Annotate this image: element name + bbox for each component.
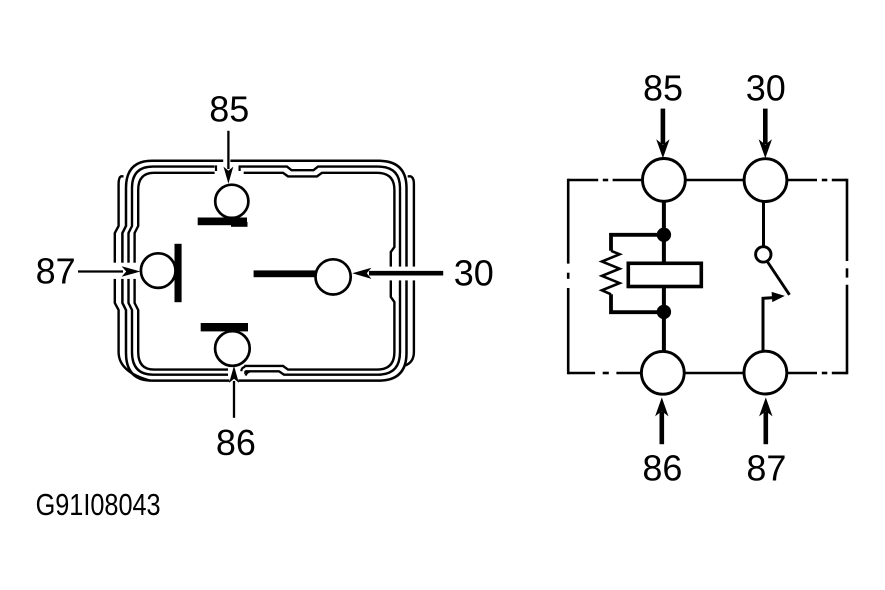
arrow to pin 87 [78, 266, 140, 277]
svg-text:85: 85 [209, 89, 249, 130]
svg-text:85: 85 [643, 68, 683, 109]
dash-dot enclosure top left [568, 179, 642, 182]
label 30 (case) [454, 252, 494, 293]
switch pivot circle [756, 247, 771, 262]
label 87 (case) [36, 251, 76, 292]
svg-text:87: 87 [746, 447, 786, 488]
switch moving contact wire [762, 292, 785, 352]
terminal 85 circle [643, 159, 686, 202]
svg-text:87: 87 [36, 251, 76, 292]
notch gap top center [215, 157, 244, 177]
relay case middle outline [129, 167, 401, 375]
arrow to pin 30 [352, 268, 443, 279]
svg-text:G91I08043: G91I08043 [36, 489, 161, 522]
notch gap bottom center [228, 363, 244, 384]
relay case left bump line [115, 176, 150, 380]
arrow to terminal 30 [759, 109, 772, 159]
junction node upper [657, 228, 671, 242]
figure id G91I08043 [36, 489, 161, 522]
dash-dot enclosure top right [787, 179, 847, 182]
relay case right bump line [405, 176, 414, 365]
label 86 (schematic) [642, 447, 682, 488]
terminal 86 circle [641, 351, 684, 394]
switch blade [768, 262, 790, 295]
svg-text:30: 30 [454, 252, 494, 293]
arrow to pin 85 [224, 131, 234, 184]
junction node lower [657, 305, 671, 319]
terminal 87 circle [744, 351, 787, 394]
svg-text:86: 86 [642, 447, 682, 488]
pin 87 terminal [141, 244, 182, 302]
wire resistor branch [611, 235, 664, 312]
arrow to pin 86 [229, 366, 239, 418]
label 85 (case) [209, 89, 249, 130]
wire from terminal 30 [762, 202, 765, 247]
relay case outer outline [122, 161, 406, 381]
arrow to terminal 87 [759, 397, 772, 444]
terminal 30 circle [744, 159, 787, 202]
svg-text:30: 30 [746, 68, 786, 109]
dash-dot enclosure top middle [685, 179, 744, 182]
notch gap left side [110, 263, 141, 279]
relay coil [628, 263, 701, 286]
wire coil branch vertical [662, 180, 666, 373]
notch hook marks top [216, 165, 240, 171]
arrow to terminal 86 [655, 397, 668, 444]
pin 85 terminal [198, 185, 249, 227]
pin 86 terminal [201, 323, 250, 366]
label 86 (case) [216, 422, 256, 463]
dash-dot enclosure left edge [567, 179, 570, 375]
dash-dot enclosure bottom middle [684, 372, 744, 375]
notch hook marks bottom [241, 367, 249, 376]
arrow to terminal 85 [656, 109, 669, 159]
resistor zigzag [602, 251, 620, 294]
label 30 (schematic) [746, 68, 786, 109]
svg-text:86: 86 [216, 422, 256, 463]
dash-dot enclosure right edge [846, 179, 849, 375]
label 87 (schematic) [746, 447, 786, 488]
pin 30 terminal [254, 259, 351, 294]
relay case inner outline [135, 173, 395, 370]
dash-dot enclosure bottom right [787, 372, 847, 375]
label 85 (schematic) [643, 68, 683, 109]
notch gap right side [388, 267, 419, 281]
dash-dot enclosure bottom left [568, 372, 641, 375]
